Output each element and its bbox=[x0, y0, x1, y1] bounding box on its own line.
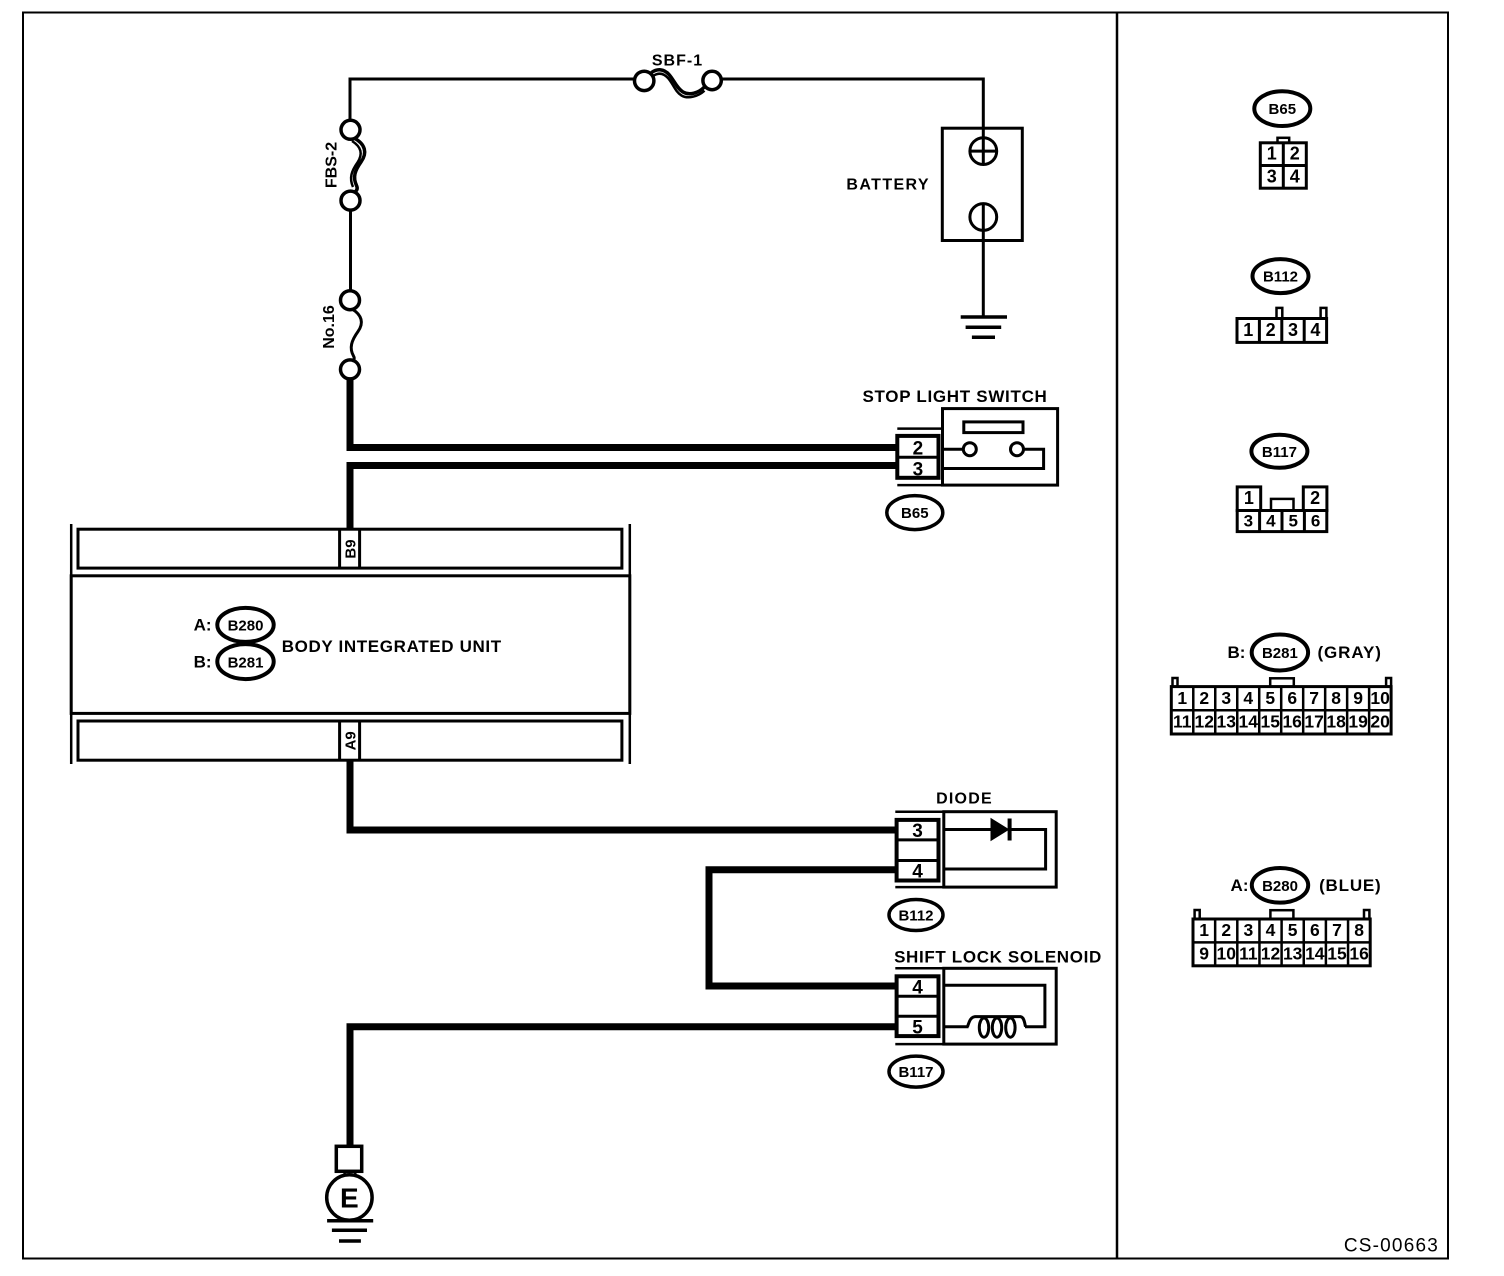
svg-text:3: 3 bbox=[1244, 920, 1254, 940]
connector label B65 bbox=[887, 496, 943, 530]
svg-text:B:: B: bbox=[194, 653, 212, 672]
shift lock solenoid bbox=[894, 948, 1102, 1045]
wire: stop light switch pin 3 to body integrated unit B9 bbox=[350, 466, 897, 530]
svg-text:E: E bbox=[340, 1183, 359, 1214]
connector B117 (pins 4,5) bbox=[897, 976, 939, 1038]
svg-text:3: 3 bbox=[1288, 320, 1298, 340]
svg-text:3: 3 bbox=[1267, 166, 1277, 186]
svg-text:12: 12 bbox=[1261, 944, 1281, 964]
svg-text:10: 10 bbox=[1216, 944, 1236, 964]
svg-text:6: 6 bbox=[1310, 920, 1320, 940]
svg-text:B:: B: bbox=[1227, 643, 1245, 662]
connector B65 pinout bbox=[1254, 91, 1310, 188]
wire: diode pin 4 to shift lock solenoid pin 4 bbox=[709, 870, 897, 986]
svg-text:No.16: No.16 bbox=[321, 305, 338, 349]
svg-text:10: 10 bbox=[1370, 688, 1390, 708]
svg-text:B117: B117 bbox=[898, 1064, 933, 1081]
svg-text:20: 20 bbox=[1370, 712, 1390, 732]
svg-text:9: 9 bbox=[1199, 944, 1209, 964]
svg-text:12: 12 bbox=[1195, 712, 1215, 732]
svg-text:16: 16 bbox=[1349, 944, 1369, 964]
svg-text:3: 3 bbox=[912, 821, 923, 842]
svg-text:B280: B280 bbox=[1262, 878, 1298, 895]
svg-text:16: 16 bbox=[1282, 712, 1302, 732]
svg-text:STOP LIGHT SWITCH: STOP LIGHT SWITCH bbox=[862, 387, 1047, 406]
svg-text:2: 2 bbox=[1221, 920, 1231, 940]
svg-text:5: 5 bbox=[912, 1018, 923, 1039]
svg-text:SBF-1: SBF-1 bbox=[652, 53, 703, 70]
svg-text:11: 11 bbox=[1239, 944, 1258, 964]
wire: body integrated unit A9 to diode pin 3 bbox=[350, 760, 897, 830]
svg-text:17: 17 bbox=[1304, 712, 1323, 732]
svg-text:4: 4 bbox=[1290, 166, 1300, 186]
connector B112 (pins 3,4) bbox=[897, 820, 939, 883]
svg-text:11: 11 bbox=[1173, 712, 1192, 732]
svg-text:BODY INTEGRATED UNIT: BODY INTEGRATED UNIT bbox=[282, 637, 502, 656]
wire: FBS-2 to No.16 bbox=[349, 210, 352, 291]
svg-text:DIODE: DIODE bbox=[936, 791, 993, 808]
svg-text:B117: B117 bbox=[1262, 444, 1297, 461]
svg-text:3: 3 bbox=[913, 459, 924, 480]
svg-text:2: 2 bbox=[1310, 488, 1320, 508]
svg-text:3: 3 bbox=[1244, 512, 1253, 531]
svg-text:4: 4 bbox=[912, 862, 923, 883]
battery bbox=[846, 128, 1022, 240]
svg-text:CS-00663: CS-00663 bbox=[1344, 1236, 1439, 1257]
svg-text:B65: B65 bbox=[1269, 101, 1297, 118]
svg-text:B280: B280 bbox=[228, 618, 264, 635]
svg-text:A:: A: bbox=[194, 616, 212, 635]
ground E bbox=[327, 1146, 374, 1241]
svg-text:B65: B65 bbox=[901, 505, 929, 522]
connector B65 (pins 2,3) bbox=[897, 436, 938, 480]
connector B112 pinout bbox=[1237, 259, 1327, 342]
svg-text:4: 4 bbox=[1243, 688, 1253, 708]
connector B281 pinout (GRAY) bbox=[1171, 635, 1391, 735]
wire: battery to ground bbox=[982, 241, 985, 318]
svg-text:19: 19 bbox=[1348, 712, 1368, 732]
svg-text:A:: A: bbox=[1231, 876, 1249, 895]
svg-text:(GRAY): (GRAY) bbox=[1318, 643, 1382, 662]
connector label B117 bbox=[889, 1056, 943, 1087]
svg-text:6: 6 bbox=[1311, 512, 1320, 531]
svg-text:9: 9 bbox=[1353, 688, 1363, 708]
svg-text:2: 2 bbox=[913, 438, 924, 459]
svg-text:B112: B112 bbox=[1263, 269, 1298, 286]
fuse SBF-1 bbox=[635, 53, 722, 98]
svg-text:18: 18 bbox=[1326, 712, 1346, 732]
wire: SBF-1 to battery bbox=[722, 79, 984, 138]
svg-text:B281: B281 bbox=[1262, 645, 1298, 662]
svg-text:4: 4 bbox=[1310, 320, 1320, 340]
svg-text:5: 5 bbox=[1288, 920, 1298, 940]
svg-text:1: 1 bbox=[1199, 920, 1209, 940]
connector B280 pinout (BLUE) bbox=[1193, 868, 1382, 966]
svg-text:7: 7 bbox=[1309, 688, 1319, 708]
svg-text:B112: B112 bbox=[898, 908, 933, 925]
svg-text:(BLUE): (BLUE) bbox=[1319, 876, 1381, 895]
svg-text:14: 14 bbox=[1238, 712, 1258, 732]
svg-text:1: 1 bbox=[1177, 688, 1187, 708]
svg-text:2: 2 bbox=[1266, 320, 1276, 340]
svg-text:5: 5 bbox=[1288, 512, 1297, 531]
connector A9 bbox=[340, 721, 360, 760]
wire: shift lock solenoid pin 5 to ground E bbox=[350, 1027, 897, 1145]
svg-text:7: 7 bbox=[1332, 920, 1342, 940]
svg-text:4: 4 bbox=[1266, 920, 1276, 940]
svg-text:13: 13 bbox=[1217, 712, 1237, 732]
connector B117 pinout bbox=[1237, 435, 1327, 532]
svg-text:5: 5 bbox=[1265, 688, 1275, 708]
connector label B112 bbox=[889, 900, 943, 931]
svg-text:15: 15 bbox=[1327, 944, 1347, 964]
wire: No.16 to stop light switch pin 2 bbox=[350, 378, 897, 448]
svg-text:B281: B281 bbox=[228, 654, 264, 671]
svg-text:6: 6 bbox=[1287, 688, 1297, 708]
wire: fuse column to SBF-1 bbox=[350, 79, 634, 121]
fuse FBS-2 bbox=[324, 120, 365, 210]
svg-text:BATTERY: BATTERY bbox=[846, 177, 930, 194]
svg-text:A9: A9 bbox=[342, 731, 359, 750]
svg-text:8: 8 bbox=[1354, 920, 1364, 940]
connector B9 bbox=[340, 529, 360, 568]
svg-text:1: 1 bbox=[1244, 488, 1254, 508]
ground (battery) bbox=[961, 317, 1007, 337]
svg-text:B9: B9 bbox=[342, 539, 359, 558]
stop light switch bbox=[862, 387, 1057, 485]
svg-text:15: 15 bbox=[1260, 712, 1280, 732]
svg-text:4: 4 bbox=[912, 977, 923, 998]
svg-text:8: 8 bbox=[1331, 688, 1341, 708]
svg-text:4: 4 bbox=[1266, 512, 1276, 531]
svg-text:1: 1 bbox=[1243, 320, 1253, 340]
svg-text:3: 3 bbox=[1221, 688, 1231, 708]
svg-text:14: 14 bbox=[1305, 944, 1325, 964]
svg-text:2: 2 bbox=[1199, 688, 1209, 708]
svg-text:13: 13 bbox=[1283, 944, 1303, 964]
svg-text:FBS-2: FBS-2 bbox=[324, 142, 341, 188]
body integrated unit bbox=[71, 524, 630, 764]
fuse No.16 bbox=[321, 291, 361, 379]
svg-text:2: 2 bbox=[1290, 144, 1300, 164]
svg-text:SHIFT LOCK SOLENOID: SHIFT LOCK SOLENOID bbox=[894, 948, 1102, 967]
svg-text:1: 1 bbox=[1267, 144, 1277, 164]
diode D (stop light) bbox=[895, 791, 1056, 888]
